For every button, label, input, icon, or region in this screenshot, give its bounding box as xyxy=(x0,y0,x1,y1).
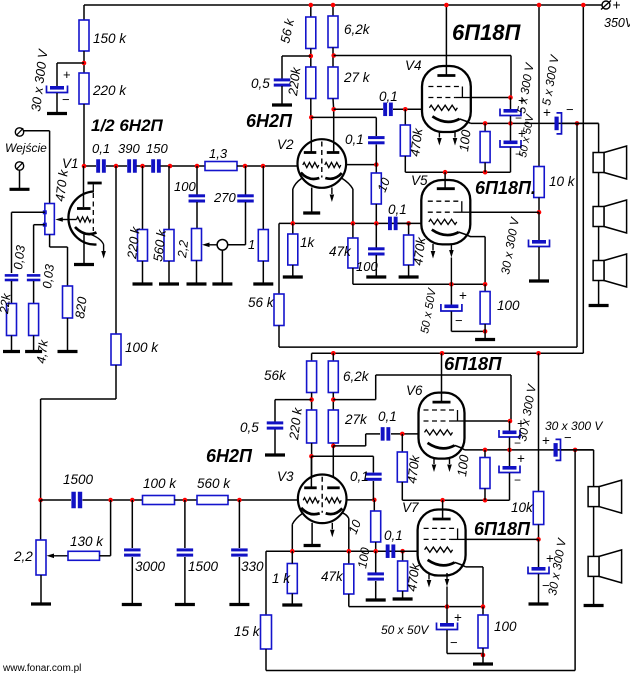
svg-text:10k: 10k xyxy=(511,500,534,515)
svg-text:100: 100 xyxy=(356,259,378,274)
svg-text:390: 390 xyxy=(118,141,140,156)
svg-text:3000: 3000 xyxy=(135,559,166,574)
svg-text:2,2: 2,2 xyxy=(175,239,191,259)
svg-text:0,5: 0,5 xyxy=(240,420,259,435)
svg-text:27k: 27k xyxy=(344,412,368,427)
svg-text:V7: V7 xyxy=(402,500,419,515)
svg-text:50 x 50V: 50 x 50V xyxy=(381,623,429,637)
svg-text:1/2 6Н2П: 1/2 6Н2П xyxy=(91,116,164,135)
svg-text:0,1: 0,1 xyxy=(345,132,364,147)
svg-text:0,1: 0,1 xyxy=(384,528,403,543)
svg-text:100: 100 xyxy=(174,179,196,194)
svg-text:27 k: 27 k xyxy=(343,70,371,85)
svg-text:V4: V4 xyxy=(405,58,422,73)
svg-text:+: + xyxy=(543,105,551,120)
svg-text:Wejście: Wejście xyxy=(5,141,47,155)
svg-text:0,5: 0,5 xyxy=(251,76,270,91)
svg-text:+: + xyxy=(542,433,550,448)
svg-text:1: 1 xyxy=(248,237,255,252)
svg-text:100 k: 100 k xyxy=(125,340,159,355)
svg-text:56k: 56k xyxy=(264,368,287,383)
svg-text:30 x 300 V: 30 x 300 V xyxy=(545,419,603,433)
svg-text:56 k: 56 k xyxy=(248,295,275,310)
svg-text:330: 330 xyxy=(241,559,264,574)
svg-text:www.fonar.com.pl: www.fonar.com.pl xyxy=(2,663,81,674)
svg-text:+: + xyxy=(517,451,525,466)
svg-text:−: − xyxy=(566,102,574,117)
svg-text:6,2k: 6,2k xyxy=(344,22,371,37)
svg-text:+: + xyxy=(459,288,467,303)
svg-text:1500: 1500 xyxy=(63,472,94,487)
svg-text:10 k: 10 k xyxy=(549,174,576,189)
svg-text:4,7k: 4,7k xyxy=(34,338,51,364)
svg-text:1k: 1k xyxy=(300,235,316,250)
svg-text:100: 100 xyxy=(497,298,520,313)
svg-text:100: 100 xyxy=(456,128,474,152)
svg-text:2,2: 2,2 xyxy=(13,549,33,564)
svg-text:−: − xyxy=(514,473,521,487)
svg-text:47k: 47k xyxy=(321,569,344,584)
svg-text:6П18П.: 6П18П. xyxy=(475,178,536,198)
svg-text:6П18П: 6П18П xyxy=(444,353,502,374)
svg-text:47k: 47k xyxy=(329,244,352,259)
svg-text:0,03: 0,03 xyxy=(40,263,57,289)
svg-text:V2: V2 xyxy=(277,137,294,152)
svg-text:+: + xyxy=(63,67,71,82)
svg-text:6Н2П: 6Н2П xyxy=(206,446,253,466)
svg-text:6П18П: 6П18П xyxy=(474,519,531,539)
svg-text:6Н2П: 6Н2П xyxy=(246,111,293,131)
svg-text:V5: V5 xyxy=(411,173,428,188)
svg-text:0,03: 0,03 xyxy=(11,244,28,270)
svg-text:−: − xyxy=(62,92,70,107)
svg-text:130 k: 130 k xyxy=(70,534,104,549)
svg-text:0,1: 0,1 xyxy=(379,89,398,104)
svg-text:0,1: 0,1 xyxy=(350,469,369,484)
svg-text:100 k: 100 k xyxy=(143,476,177,491)
svg-text:15 k: 15 k xyxy=(234,624,261,639)
svg-text:1500: 1500 xyxy=(188,559,219,574)
svg-text:0,1: 0,1 xyxy=(388,202,407,217)
svg-text:6,2k: 6,2k xyxy=(343,369,370,384)
svg-text:350V: 350V xyxy=(604,16,630,30)
svg-text:100: 100 xyxy=(454,453,472,477)
svg-text:−: − xyxy=(455,313,463,328)
svg-text:+: + xyxy=(454,610,462,625)
svg-text:150: 150 xyxy=(146,141,168,156)
svg-text:V1: V1 xyxy=(62,156,79,171)
svg-text:220 k: 220 k xyxy=(92,83,127,98)
svg-text:100: 100 xyxy=(494,619,517,634)
svg-text:1,3: 1,3 xyxy=(209,146,228,161)
svg-text:0,1: 0,1 xyxy=(378,409,397,424)
svg-text:V3: V3 xyxy=(277,469,294,484)
svg-text:V6: V6 xyxy=(406,383,423,398)
svg-text:6П18П: 6П18П xyxy=(452,20,522,45)
svg-text:150 k: 150 k xyxy=(93,31,127,46)
svg-text:270: 270 xyxy=(213,190,236,205)
svg-text:+: + xyxy=(613,0,621,13)
svg-text:1 k: 1 k xyxy=(272,571,291,586)
svg-text:560 k: 560 k xyxy=(197,476,231,491)
svg-text:820: 820 xyxy=(72,295,90,319)
svg-text:0,1: 0,1 xyxy=(92,141,110,156)
svg-text:−: − xyxy=(450,635,458,650)
